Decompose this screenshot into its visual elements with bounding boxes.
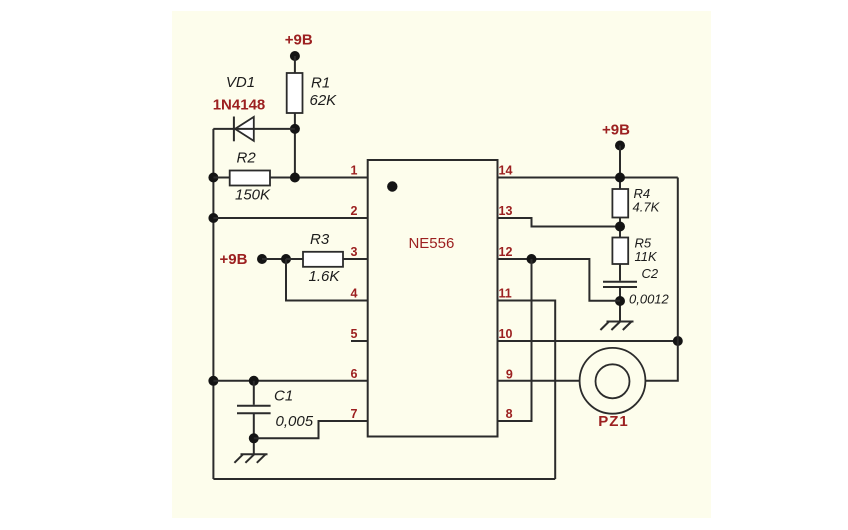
junction C2 bottom xyxy=(615,296,625,306)
wire pin 9 to PZ1 xyxy=(498,380,580,382)
junction left bus row2 xyxy=(208,213,218,223)
svg-text:+9B: +9B xyxy=(220,251,248,268)
wire row2 to pin 2 xyxy=(213,217,367,219)
op-amp timer U1 NE556 body xyxy=(368,160,498,437)
wire row6 to pin 6 xyxy=(213,380,367,382)
svg-text:+9B: +9B xyxy=(285,32,313,49)
wire right bus vertical xyxy=(645,178,677,381)
svg-text:+9B: +9B xyxy=(602,122,630,139)
wire C2 bottom to ground xyxy=(619,288,621,322)
node +9B (right supply terminal) xyxy=(602,122,630,151)
junction left bus row1 xyxy=(208,173,218,183)
svg-text:4.7K: 4.7K xyxy=(633,200,661,215)
wire pin 5 stub xyxy=(351,340,368,342)
svg-text:6: 6 xyxy=(351,367,358,381)
wire R5 bottom to C2 xyxy=(619,264,621,281)
svg-text:3: 3 xyxy=(351,245,358,259)
svg-text:10: 10 xyxy=(499,327,513,341)
junction pin 12 / pin 8 riser xyxy=(527,254,537,264)
junction right bus row5 xyxy=(673,336,683,346)
svg-text:11: 11 xyxy=(499,287,512,301)
svg-text:1N4148: 1N4148 xyxy=(213,97,266,114)
wire R3 node down to pin 4 xyxy=(286,259,368,301)
wire pin 12 to C2 bottom xyxy=(498,259,621,301)
svg-text:R3: R3 xyxy=(310,231,330,248)
svg-text:C2: C2 xyxy=(642,266,659,281)
capacitor C2 xyxy=(603,266,659,287)
svg-text:62K: 62K xyxy=(310,92,338,109)
wire pin 11 to bottom return xyxy=(498,301,556,480)
wire bottom return to pin 11 riser xyxy=(213,478,555,480)
svg-text:0,0012: 0,0012 xyxy=(629,292,670,307)
svg-text:VD1: VD1 xyxy=(226,74,255,91)
svg-text:8: 8 xyxy=(506,407,513,421)
wire R2 to pin 1 xyxy=(270,177,368,179)
piezo transducer PZ1 xyxy=(580,348,646,430)
ground (below C2) xyxy=(600,322,633,331)
svg-text:9: 9 xyxy=(506,367,513,381)
svg-text:5: 5 xyxy=(351,327,358,341)
svg-text:14: 14 xyxy=(499,164,513,178)
node +9B (top supply terminal) xyxy=(285,32,313,62)
svg-text:1.6K: 1.6K xyxy=(309,268,341,285)
svg-text:R2: R2 xyxy=(237,150,257,167)
svg-text:R1: R1 xyxy=(311,75,330,92)
wire +9B right down to row1 xyxy=(619,146,621,190)
capacitor C1 xyxy=(237,381,314,454)
wire R1 bottom to row1 xyxy=(294,113,296,178)
junction C1 top xyxy=(249,376,259,386)
svg-text:NE556: NE556 xyxy=(408,235,454,252)
resistor R4 xyxy=(612,186,660,218)
resistor R1 xyxy=(287,73,337,113)
junction C1 bottom xyxy=(249,433,259,443)
wire R3 to pin 3 xyxy=(343,258,368,260)
svg-text:PZ1: PZ1 xyxy=(598,413,629,430)
resistor R2 xyxy=(213,150,271,204)
wire pin 14 to right bus xyxy=(498,177,678,179)
node +9B (left supply terminal) xyxy=(220,251,267,268)
resistor R3 xyxy=(286,231,343,285)
wire pin 13 to R4/R5 node xyxy=(498,218,621,227)
svg-text:13: 13 xyxy=(499,204,513,218)
junction R3 left node xyxy=(281,254,291,264)
wire R4 bottom to R5 top xyxy=(619,218,621,238)
wire +9B to R3 node xyxy=(262,258,286,260)
diode VD1 1N4148 xyxy=(213,74,295,141)
wire left bus vertical xyxy=(212,129,214,479)
svg-text:C1: C1 xyxy=(274,388,293,405)
wire C1 bottom to pin 7 xyxy=(254,421,368,438)
pin 1 marker dot xyxy=(387,181,397,191)
svg-text:1: 1 xyxy=(351,164,358,178)
wire pin 10 to right bus xyxy=(498,340,678,342)
junction R4 top xyxy=(615,173,625,183)
wire pin 8 riser xyxy=(498,259,532,421)
svg-text:4: 4 xyxy=(351,287,358,301)
junction row1 / R1 branch xyxy=(290,173,300,183)
svg-text:12: 12 xyxy=(499,245,513,259)
junction R4/R5 xyxy=(615,222,625,232)
junction left bus row6 xyxy=(208,376,218,386)
svg-text:150K: 150K xyxy=(235,187,271,204)
resistor R5 xyxy=(612,236,658,265)
svg-text:0,005: 0,005 xyxy=(276,413,314,430)
wire +9B terminal to R1 top xyxy=(294,56,296,73)
ground (below C1) xyxy=(234,454,267,463)
junction R1/VD1 xyxy=(290,124,300,134)
svg-text:2: 2 xyxy=(351,204,358,218)
svg-text:7: 7 xyxy=(351,407,358,421)
svg-text:11K: 11K xyxy=(635,249,658,264)
